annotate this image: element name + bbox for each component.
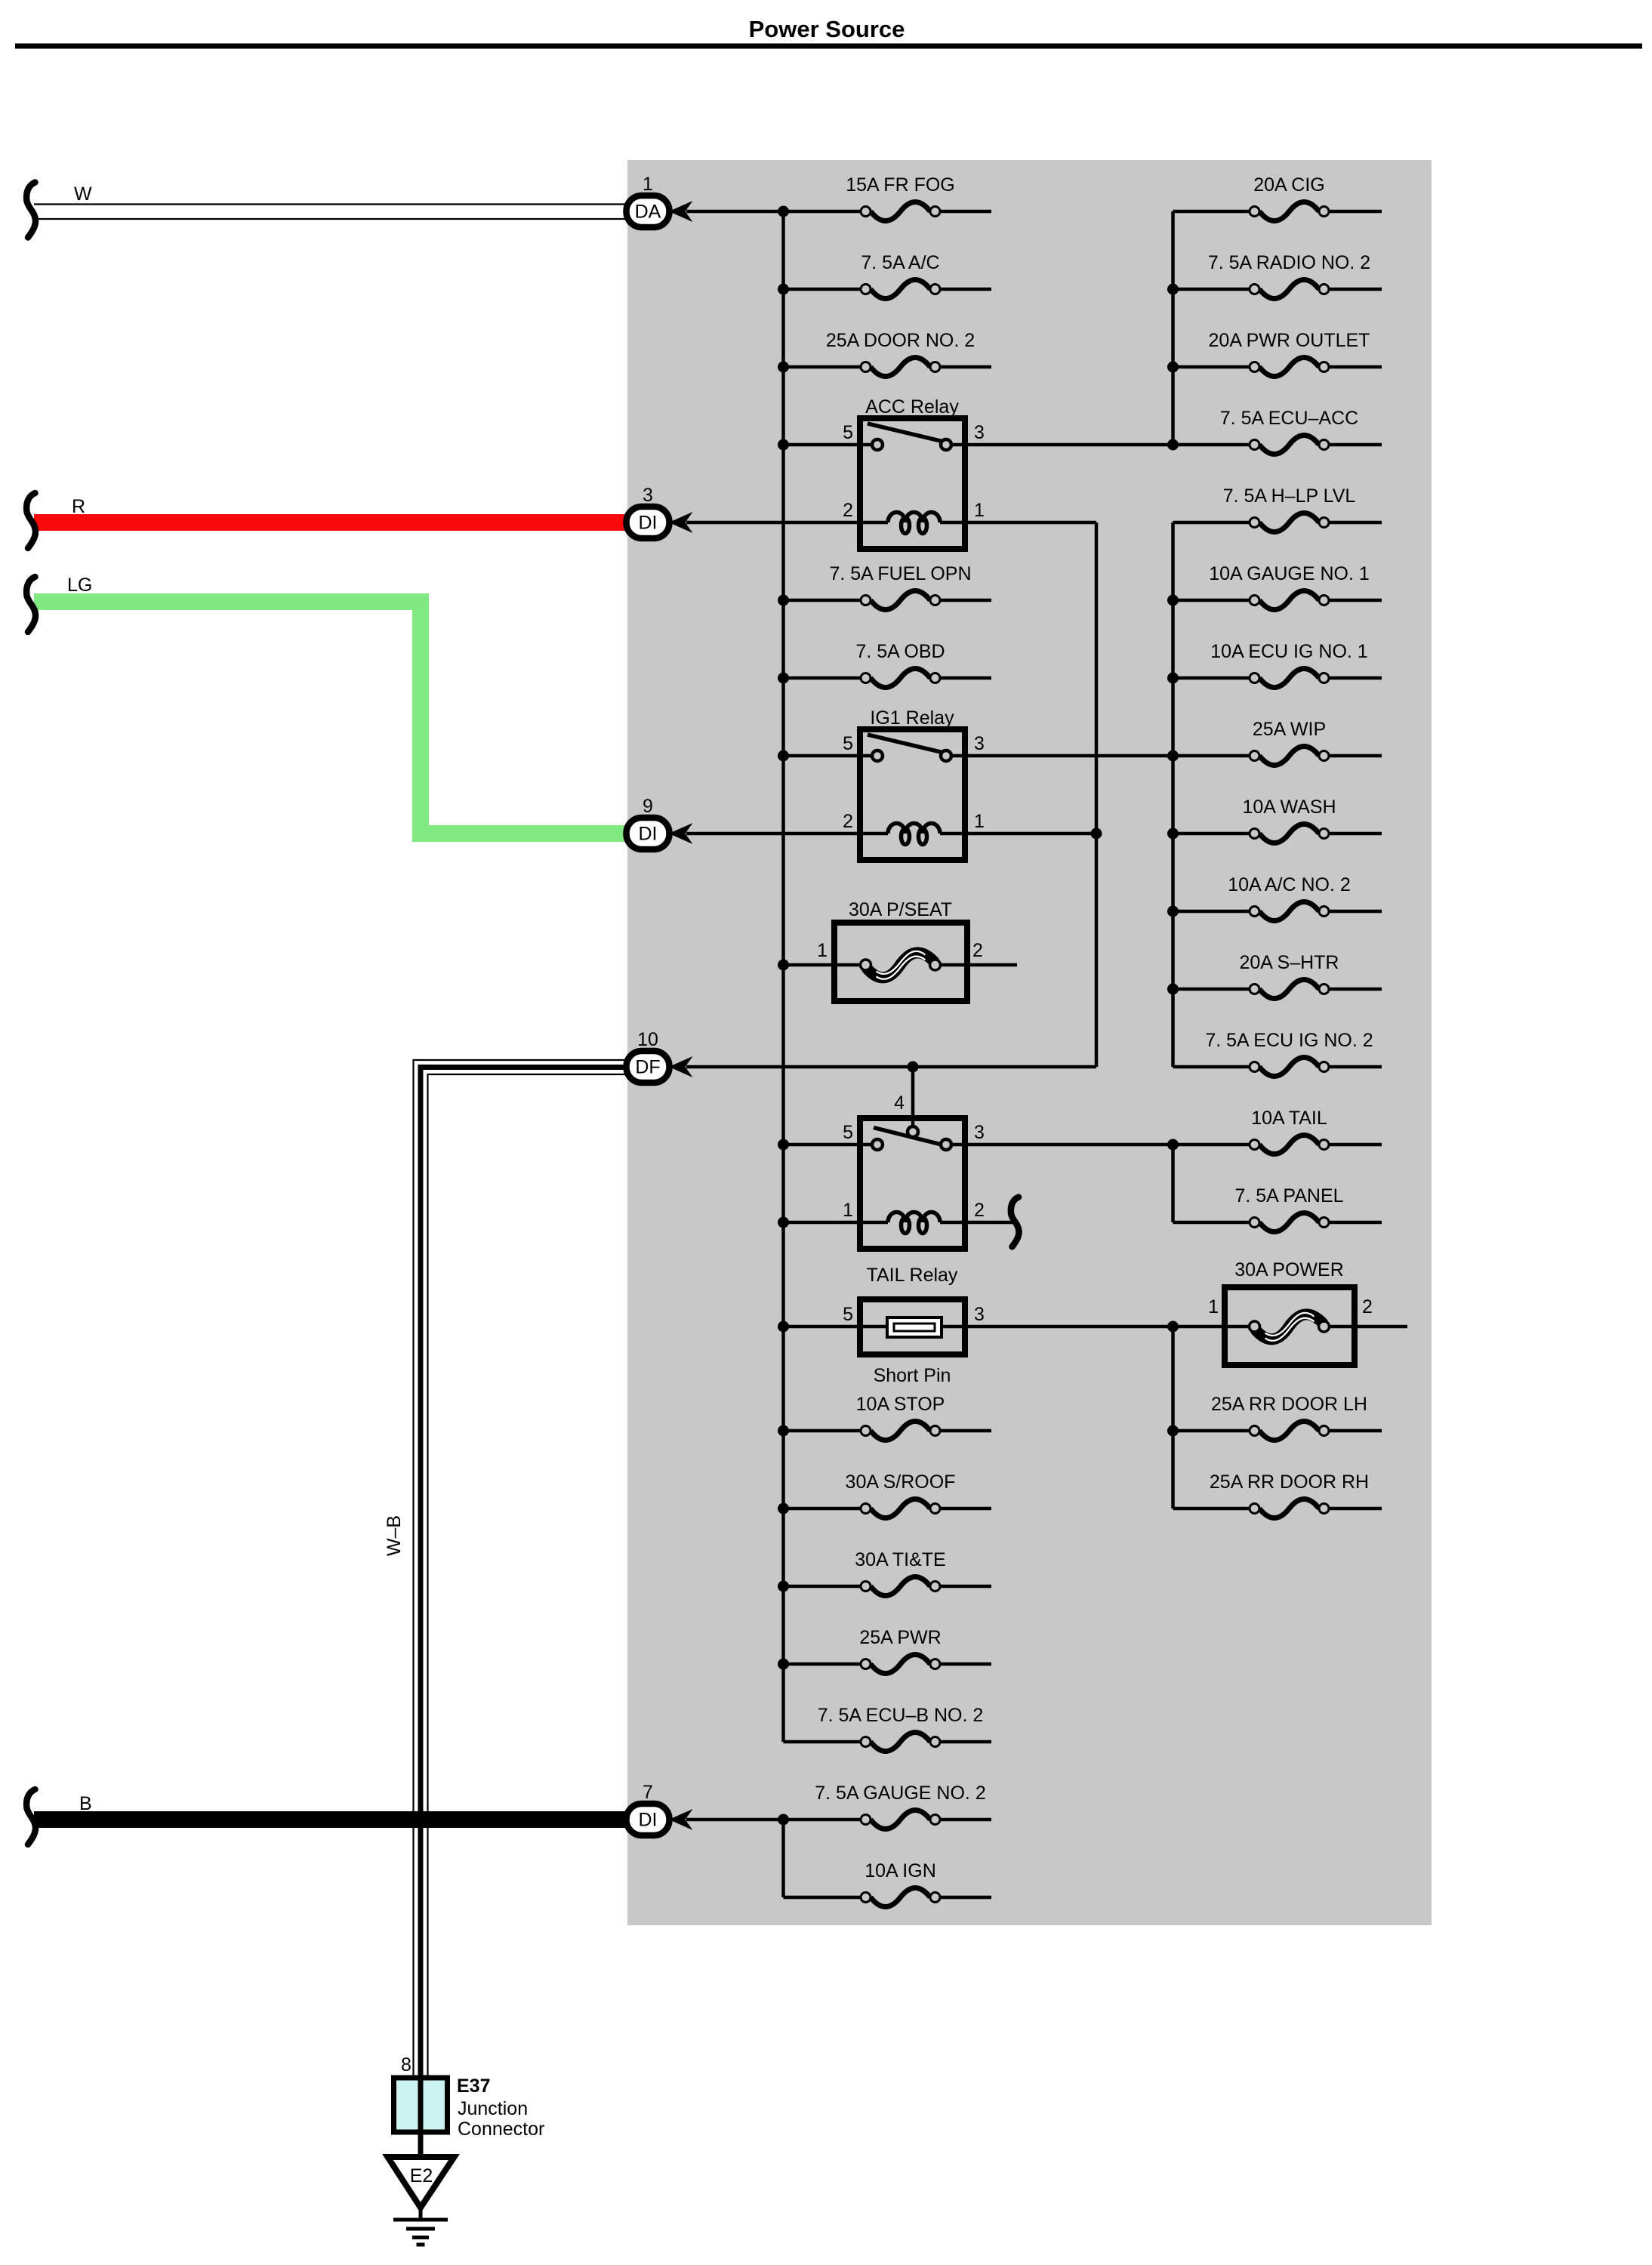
wire W-B from connector DF pin 10 down to junction connector E37	[414, 1060, 628, 2157]
svg-text:30A TI&TE: 30A TI&TE	[855, 1549, 945, 1570]
svg-text:DI: DI	[639, 513, 658, 534]
wire: DI(9) arrow to IG1 relay pin 2	[686, 832, 888, 836]
wire-break squiggle at TAIL relay pin 2	[1011, 1197, 1019, 1247]
wire: left bus to 30A P/SEAT pin 1	[784, 963, 861, 967]
wire: DA arrow to left bus to 15A FR FOG	[686, 210, 861, 214]
fuse 25A RR DOOR LH	[1173, 1394, 1382, 1441]
junction at (1452,1104)	[1091, 828, 1102, 840]
junction at (1037,1001)	[778, 750, 789, 762]
junction at (1553,1895)	[1167, 1425, 1179, 1437]
svg-text:1: 1	[817, 940, 828, 961]
svg-text:3: 3	[643, 485, 653, 506]
label W-B on wire	[384, 1515, 405, 1556]
svg-text:1: 1	[643, 174, 653, 195]
svg-text:1: 1	[1208, 1296, 1219, 1317]
svg-text:R: R	[72, 496, 85, 517]
svg-text:2: 2	[972, 940, 983, 961]
fuse 15A FR FOG	[846, 174, 991, 221]
Short Pin	[843, 1299, 985, 1386]
fuse 25A WIP	[1173, 719, 1382, 766]
connector DA pin 1	[627, 174, 693, 227]
svg-text:20A PWR OUTLET: 20A PWR OUTLET	[1209, 330, 1370, 351]
svg-text:10A STOP: 10A STOP	[856, 1394, 945, 1415]
junction at (1037,1895)	[778, 1425, 789, 1437]
junction connector E37	[394, 2078, 448, 2132]
svg-text:25A RR DOOR LH: 25A RR DOOR LH	[1211, 1394, 1367, 1415]
svg-text:10: 10	[637, 1029, 658, 1050]
wire: left bus to IG1 relay pin 5	[784, 754, 873, 758]
svg-text:10A A/C NO. 2: 10A A/C NO. 2	[1228, 874, 1351, 895]
svg-text:7. 5A PANEL: 7. 5A PANEL	[1234, 1185, 1343, 1206]
right bus wire (ACC feed)	[1171, 211, 1175, 445]
svg-text:7. 5A ECU–B NO. 2: 7. 5A ECU–B NO. 2	[818, 1705, 984, 1726]
svg-text:W: W	[74, 183, 92, 205]
fuse 7. 5A H–LP LVL	[1173, 485, 1382, 532]
svg-text:7. 5A RADIO NO. 2: 7. 5A RADIO NO. 2	[1208, 252, 1370, 273]
fuse 7. 5A ECU–ACC	[1173, 408, 1382, 455]
junction at (1037,1619)	[778, 1217, 789, 1228]
svg-text:2: 2	[843, 811, 853, 832]
connector DI pin 3	[627, 485, 693, 538]
fuse 25A PWR	[784, 1627, 992, 1674]
wire: left bus to Short Pin pin 5	[784, 1325, 888, 1329]
fuse 10A GAUGE NO. 1	[1173, 563, 1382, 610]
wire: Short Pin pin 3 to right bus and 30A POWER pin 1	[942, 1325, 1250, 1329]
junction at (1037,898)	[778, 673, 789, 684]
svg-text:2: 2	[974, 1200, 985, 1221]
wire LG (light green) to connector DI pin 9	[34, 575, 627, 834]
junction at (1209,1413)	[908, 1062, 919, 1073]
junction at (1553,1001)	[1167, 750, 1179, 762]
title: Power Source	[749, 16, 905, 42]
wire: left bus to ACC relay pin 5	[784, 443, 873, 447]
svg-text:B: B	[79, 1793, 92, 1814]
fuse 10A IGN	[784, 1860, 992, 1907]
left bus wire (battery feed)	[781, 211, 785, 1742]
svg-text:4: 4	[894, 1092, 905, 1114]
svg-text:DA: DA	[635, 202, 661, 223]
svg-text:TAIL Relay: TAIL Relay	[867, 1265, 958, 1286]
svg-text:7. 5A A/C: 7. 5A A/C	[861, 252, 939, 273]
junction at (1553,1516)	[1167, 1139, 1179, 1151]
wire: DF arrow to vertical feed (crosses left bus)	[686, 1065, 1096, 1069]
fuse 7. 5A ECU–B NO. 2	[784, 1705, 992, 1752]
wire B (black) to connector DI pin 7	[34, 1793, 627, 1828]
svg-text:Connector: Connector	[458, 2119, 544, 2140]
right bus wire (IG feed)	[1171, 522, 1175, 1067]
svg-text:25A PWR: 25A PWR	[859, 1627, 941, 1648]
svg-text:3: 3	[974, 1122, 985, 1143]
svg-text:LG: LG	[67, 575, 92, 596]
svg-text:7. 5A ECU–ACC: 7. 5A ECU–ACC	[1220, 408, 1358, 429]
junction at (1037,1998)	[778, 1503, 789, 1515]
svg-text:15A FR FOG: 15A FR FOG	[846, 174, 954, 196]
svg-text:20A S–HTR: 20A S–HTR	[1239, 952, 1339, 973]
svg-text:ACC Relay: ACC Relay	[865, 396, 959, 418]
svg-text:5: 5	[843, 733, 853, 754]
svg-text:IG1 Relay: IG1 Relay	[870, 707, 954, 729]
junction at (1553,1104)	[1167, 828, 1179, 840]
junction at (1037,1516)	[778, 1139, 789, 1151]
wire: 30A POWER pin 2 stub	[1329, 1325, 1407, 1329]
wire: ACC relay pin 3 to right bus (7.5A ECU-ACC)	[951, 443, 1173, 447]
fuse 7. 5A PANEL	[1173, 1185, 1382, 1232]
svg-text:10A TAIL: 10A TAIL	[1251, 1108, 1327, 1129]
wire-break squiggle on wire B	[26, 1789, 35, 1844]
svg-text:25A RR DOOR RH: 25A RR DOOR RH	[1210, 1471, 1369, 1493]
svg-text:3: 3	[974, 422, 985, 443]
fuse 10A WASH	[1173, 797, 1382, 843]
relay IG1 Relay	[843, 707, 985, 860]
svg-text:30A S/ROOF: 30A S/ROOF	[846, 1471, 956, 1493]
svg-text:10A GAUGE NO. 1: 10A GAUGE NO. 1	[1209, 563, 1370, 584]
svg-text:3: 3	[974, 733, 985, 754]
vertical wire: ACC relay pin 1 / IG1 relay pin 1 / DF feed	[1095, 522, 1099, 1067]
relay ACC Relay	[843, 396, 985, 549]
svg-text:E37: E37	[457, 2075, 490, 2097]
left bus wire lower segment (GAUGE NO.2 / IGN)	[781, 1820, 785, 1897]
pin 8 label of E37	[401, 2054, 411, 2075]
svg-text:5: 5	[843, 1304, 853, 1325]
fuse 30A S/ROOF	[784, 1471, 992, 1518]
junction at (1553,1207)	[1167, 906, 1179, 917]
svg-text:E2: E2	[410, 2165, 433, 2186]
svg-text:DI: DI	[639, 824, 658, 845]
svg-text:7. 5A OBD: 7. 5A OBD	[855, 641, 945, 662]
junction at (1553,383)	[1167, 284, 1179, 295]
wire: left bus to TAIL relay pin 1	[784, 1221, 889, 1225]
wire: 30A P/SEAT pin 2 stub	[940, 963, 1017, 967]
svg-text:7. 5A ECU IG NO. 2: 7. 5A ECU IG NO. 2	[1205, 1030, 1373, 1051]
svg-text:DI: DI	[639, 1810, 658, 1831]
junction at (1037,1757)	[778, 1321, 789, 1333]
ground E2	[388, 2157, 455, 2245]
wire: IG1 relay pin 3 to right bus (25A WIP)	[951, 754, 1173, 758]
junction at (1037,383)	[778, 284, 789, 295]
wire: ACC relay pin 1 to vertical feed	[940, 521, 1096, 525]
wire: DI(7) arrow to left bus to 7.5A GAUGE NO.2	[686, 1818, 861, 1822]
title rule	[15, 44, 1642, 49]
wire: left bus to TAIL relay pin 5	[784, 1143, 873, 1147]
fuse 25A RR DOOR RH	[1173, 1471, 1382, 1518]
svg-text:Power Source: Power Source	[749, 16, 905, 42]
right bus wire (TAIL/PANEL feed)	[1171, 1145, 1175, 1222]
fuse 10A TAIL	[1173, 1108, 1382, 1154]
svg-text:9: 9	[643, 796, 653, 817]
svg-text:7. 5A GAUGE NO. 2: 7. 5A GAUGE NO. 2	[815, 1783, 985, 1804]
svg-text:1: 1	[974, 500, 985, 521]
svg-text:1: 1	[974, 811, 985, 832]
junction at (1553,589)	[1167, 439, 1179, 451]
svg-text:10A WASH: 10A WASH	[1242, 797, 1336, 818]
svg-text:2: 2	[1362, 1296, 1373, 1317]
fuse 10A A/C NO. 2	[1173, 874, 1382, 921]
fuse 30A TI&TE	[784, 1549, 992, 1596]
junction at (1553,1757)	[1167, 1321, 1179, 1333]
fuse 7. 5A RADIO NO. 2	[1173, 252, 1382, 299]
svg-text:1: 1	[843, 1200, 853, 1221]
svg-text:Short Pin: Short Pin	[874, 1365, 951, 1386]
wire: DI(3) arrow to ACC relay pin 2	[686, 521, 888, 525]
fusible link 30A POWER	[1208, 1259, 1373, 1365]
junction at (1553,898)	[1167, 673, 1179, 684]
junction at (1037,2410)	[778, 1814, 789, 1826]
relay block (fuse/relay box) background	[627, 160, 1432, 1925]
svg-text:7. 5A H–LP LVL: 7. 5A H–LP LVL	[1223, 485, 1356, 507]
connector DF pin 10	[627, 1029, 693, 1083]
junction at (1037,486)	[778, 362, 789, 373]
svg-text:8: 8	[401, 2054, 411, 2075]
svg-text:5: 5	[843, 1122, 853, 1143]
svg-text:25A WIP: 25A WIP	[1253, 719, 1326, 740]
fuse 25A DOOR NO. 2	[784, 330, 992, 377]
junction at (1037,2101)	[778, 1581, 789, 1592]
connector DI pin 9	[627, 796, 693, 849]
E37 label	[457, 2075, 544, 2140]
wire-break squiggle on wire LG	[26, 577, 35, 632]
svg-text:W–B: W–B	[384, 1515, 405, 1556]
svg-text:7: 7	[643, 1782, 653, 1803]
fuse 20A PWR OUTLET	[1173, 330, 1382, 377]
fuse 7. 5A A/C	[784, 252, 992, 299]
svg-text:10A IGN: 10A IGN	[865, 1860, 936, 1881]
fuse 20A S–HTR	[1173, 952, 1382, 999]
fuse 7. 5A ECU IG NO. 2	[1173, 1030, 1382, 1077]
svg-text:3: 3	[974, 1304, 985, 1325]
svg-text:30A POWER: 30A POWER	[1234, 1259, 1344, 1280]
svg-text:2: 2	[843, 500, 853, 521]
svg-text:10A ECU IG NO. 1: 10A ECU IG NO. 1	[1210, 641, 1367, 662]
right bus wire (POWER / RR DOOR feed)	[1171, 1327, 1175, 1508]
fuse 10A STOP	[784, 1394, 992, 1441]
fuse 20A CIG	[1173, 174, 1382, 221]
junction at (1553,1310)	[1167, 984, 1179, 995]
svg-text:20A CIG: 20A CIG	[1253, 174, 1325, 196]
junction at (1037,280)	[778, 206, 789, 217]
junction at (1037,795)	[778, 595, 789, 606]
svg-text:5: 5	[843, 422, 853, 443]
wire: TAIL relay pin 2 stub to off-page squiggle	[940, 1221, 1014, 1225]
fuse 10A ECU IG NO. 1	[1173, 641, 1382, 688]
junction at (1553,795)	[1167, 595, 1179, 606]
svg-text:7. 5A FUEL OPN: 7. 5A FUEL OPN	[829, 563, 971, 584]
fuse 7. 5A OBD	[784, 641, 992, 688]
svg-text:25A DOOR NO. 2: 25A DOOR NO. 2	[826, 330, 975, 351]
wire W (white) to connector DA pin 1	[34, 183, 627, 219]
wire: IG1 relay pin 1 to vertical feed	[940, 832, 1096, 836]
junction at (1553,486)	[1167, 362, 1179, 373]
fuse 7. 5A FUEL OPN	[784, 563, 992, 610]
wire-break squiggle on wire W	[26, 183, 35, 238]
wire: TAIL relay pin 3 to right bus (10A TAIL)	[951, 1143, 1173, 1147]
svg-text:DF: DF	[635, 1057, 660, 1078]
vertical wire: DF line to TAIL relay pin 4	[911, 1067, 915, 1128]
fusible link 30A P/SEAT	[817, 899, 983, 1001]
junction at (1037,2204)	[778, 1659, 789, 1670]
svg-text:30A P/SEAT: 30A P/SEAT	[849, 899, 952, 920]
svg-text:Junction: Junction	[458, 2098, 528, 2119]
wire R (red) to connector DI pin 3	[34, 496, 627, 531]
junction at (1037,1278)	[778, 960, 789, 971]
junction at (1037,589)	[778, 439, 789, 451]
fuse 7. 5A GAUGE NO. 2	[815, 1783, 991, 1829]
relay TAIL Relay	[843, 1092, 985, 1286]
wire-break squiggle on wire R	[26, 493, 35, 548]
connector DI pin 7	[627, 1782, 693, 1835]
